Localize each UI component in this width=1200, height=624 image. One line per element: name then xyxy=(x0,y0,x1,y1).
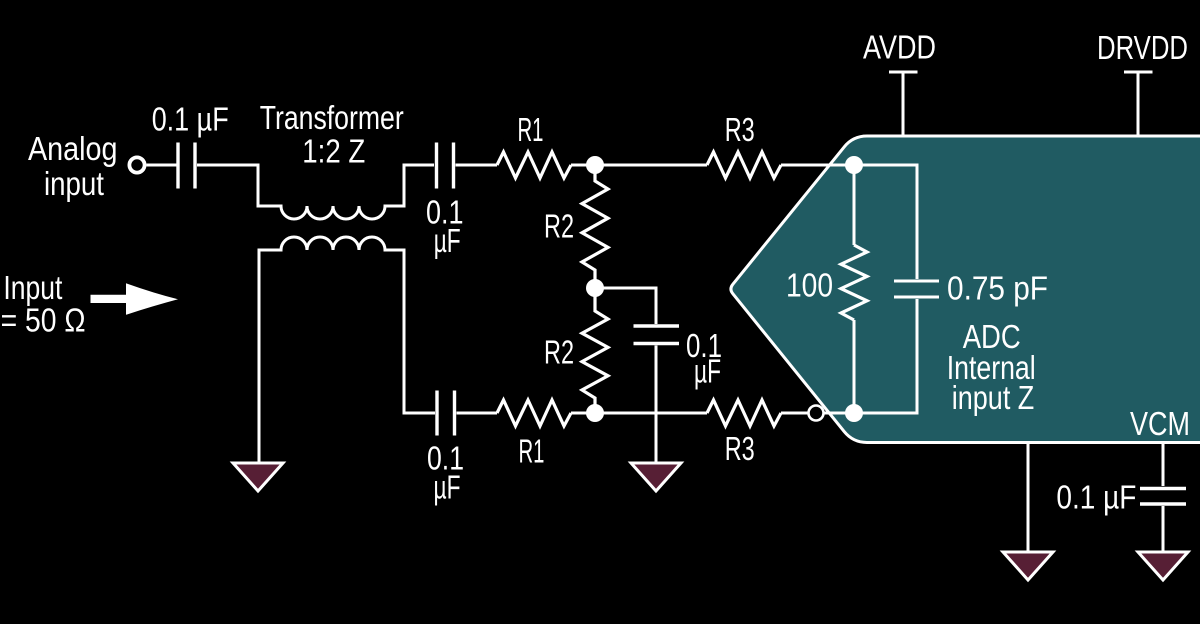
svg-text:µF: µF xyxy=(434,470,461,507)
wire xyxy=(197,164,258,167)
node junction mid xyxy=(586,279,604,297)
svg-text:DRVDD: DRVDD xyxy=(1097,30,1188,67)
input arrow xyxy=(91,283,179,315)
svg-text:VCM: VCM xyxy=(1130,406,1190,443)
capacitor C5 0.75pF xyxy=(894,281,939,297)
svg-text:µF: µF xyxy=(694,354,721,391)
svg-text:R2: R2 xyxy=(544,209,574,246)
svg-text:Transformer: Transformer xyxy=(260,100,404,137)
wire xyxy=(457,412,498,415)
node ADC bottom xyxy=(845,404,863,422)
ground xyxy=(1138,552,1188,580)
capacitor C1 0.1uF xyxy=(178,143,195,189)
svg-text:0.75 pF: 0.75 pF xyxy=(947,271,1048,308)
svg-text:0.1 µF: 0.1 µF xyxy=(152,102,229,139)
transformer T1 primary xyxy=(197,165,434,219)
svg-text:1:2 Z: 1:2 Z xyxy=(302,134,365,171)
ground xyxy=(631,463,681,491)
svg-text:R1: R1 xyxy=(518,112,544,149)
wire xyxy=(781,164,854,167)
resistor R2 lower xyxy=(582,288,608,413)
svg-text:100: 100 xyxy=(786,268,833,305)
resistor R2 upper xyxy=(582,165,608,288)
capacitor C6 0.1uF xyxy=(1140,489,1186,505)
svg-text:R2: R2 xyxy=(544,335,574,372)
resistor R3 bottom xyxy=(707,400,781,426)
transformer T1 secondary xyxy=(259,237,435,463)
node junction top xyxy=(586,156,604,174)
node ADC input open circle xyxy=(809,406,824,421)
capacitor C3 0.1uF xyxy=(437,391,455,436)
capacitor C2 0.1uF xyxy=(437,143,454,189)
power DRVDD pin xyxy=(1124,72,1153,137)
svg-text:µF: µF xyxy=(434,223,461,260)
wire xyxy=(147,164,178,167)
wire xyxy=(781,412,860,415)
resistor R1 bottom xyxy=(497,400,571,426)
capacitor C5 0.75pF wires xyxy=(854,165,917,413)
wire ADC bottom pin xyxy=(1027,443,1030,551)
resistor R1 top xyxy=(497,152,571,178)
wire xyxy=(1162,506,1165,551)
wire VCM pin xyxy=(1162,443,1165,486)
svg-text:AVDD: AVDD xyxy=(863,30,936,67)
svg-text:R1: R1 xyxy=(519,434,545,471)
svg-text:Input: Input xyxy=(3,270,63,307)
svg-text:input: input xyxy=(44,166,105,203)
ground xyxy=(233,463,283,491)
wire xyxy=(571,164,707,167)
wire mid node to C4 xyxy=(595,288,656,324)
node junction bottom xyxy=(586,404,604,422)
svg-text:R3: R3 xyxy=(725,431,755,468)
svg-text:Analog: Analog xyxy=(28,131,118,168)
op-amp U1 ADC body xyxy=(731,136,1200,443)
resistor R3 top xyxy=(707,152,781,178)
svg-text:0.1 µF: 0.1 µF xyxy=(1056,480,1136,517)
svg-text:= 50 Ω: = 50 Ω xyxy=(1,303,86,340)
power AVDD pin xyxy=(889,72,918,137)
ground xyxy=(1003,552,1053,580)
wire xyxy=(456,164,498,167)
svg-text:R3: R3 xyxy=(725,112,755,149)
node ADC top xyxy=(845,156,863,174)
wire C4 to ground xyxy=(655,346,658,464)
resistor R int 100 xyxy=(853,165,856,413)
svg-text:input Z: input Z xyxy=(952,380,1035,417)
wire xyxy=(571,412,707,415)
capacitor C4 0.1uF xyxy=(634,326,680,344)
node analog input terminal xyxy=(129,157,144,172)
